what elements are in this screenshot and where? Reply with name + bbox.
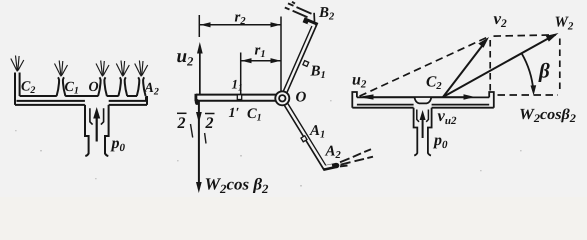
svg-text:W2cos β2: W2cos β2 bbox=[205, 175, 269, 196]
nozzle funnel 4 (right end) bbox=[137, 77, 146, 96]
lower arm to A2 bbox=[282, 98, 337, 168]
hub outer bbox=[275, 91, 289, 105]
right tube right lip bbox=[489, 92, 494, 108]
right pipe outer walls bbox=[414, 108, 418, 156]
vector v2 bbox=[443, 37, 489, 97]
nozzle funnel 3 bbox=[118, 77, 127, 96]
left tube end wall (right) bbox=[146, 96, 147, 105]
sprays left tube bbox=[11, 56, 148, 77]
upper arm to B2 bbox=[282, 20, 315, 99]
vector w2 bbox=[443, 33, 559, 97]
marker square 1-1 on bar bbox=[237, 95, 241, 100]
right tube left lip bbox=[352, 92, 357, 108]
nozzle funnel 1 bbox=[57, 77, 66, 96]
right tube outer bottom bbox=[352, 107, 494, 109]
p0 flow arrow (right pipe) bbox=[420, 110, 426, 138]
rotor bar (horizontal arm) bbox=[196, 94, 277, 102]
spray A2 (dashes right) bbox=[340, 149, 373, 166]
r1 dimension bbox=[241, 53, 281, 95]
svg-text:O: O bbox=[296, 90, 307, 106]
right pipe inner hooks bbox=[417, 110, 419, 122]
svg-text:2: 2 bbox=[205, 115, 214, 132]
right tube cavity bottom bbox=[357, 104, 489, 106]
svg-text:β: β bbox=[538, 59, 550, 83]
supply pipe outer walls bbox=[85, 105, 89, 156]
hub axle inner circle bbox=[279, 95, 285, 101]
left tube bottom wall inner line bbox=[17, 100, 147, 102]
u2 axis up arrow bbox=[197, 42, 203, 95]
right tube top wall bbox=[352, 92, 494, 156]
spray B2 (dashes up-left) bbox=[285, 2, 312, 17]
paper speckles bbox=[15, 100, 562, 187]
svg-text:W2cosβ2: W2cosβ2 bbox=[519, 106, 576, 125]
dashed drop below w2 bbox=[559, 39, 561, 93]
dashed parallelogram side u2-v2 bbox=[360, 38, 487, 97]
nozzle funnel 2 bbox=[98, 77, 107, 96]
angle arc beta with arrow bbox=[522, 53, 537, 95]
r2 dimension bbox=[199, 15, 281, 91]
marker square B1 bbox=[303, 61, 309, 67]
vector vu2 (right along tube) bbox=[443, 94, 475, 100]
svg-text:O: O bbox=[89, 80, 99, 95]
left tube end lip (left, upturned) bbox=[15, 73, 20, 105]
dashed baseline to w2 foot bbox=[498, 94, 559, 96]
bar end blob bbox=[195, 99, 199, 105]
left tube top wall bbox=[20, 95, 137, 97]
supply pipe inner tube hooks bbox=[90, 108, 93, 124]
dashed drop below v2 bbox=[489, 40, 491, 93]
inlet dip bbox=[415, 97, 432, 103]
vector u2 (left along tube) bbox=[358, 94, 443, 99]
p0 flow arrow (left pipe) bbox=[93, 107, 100, 142]
marker square A1 bbox=[301, 136, 307, 142]
axis down arrow w2cosb2 bbox=[191, 101, 207, 193]
dashed line v2-w2 bbox=[494, 35, 557, 36]
left tube bottom wall outer line bbox=[15, 104, 147, 106]
svg-text:1′: 1′ bbox=[229, 106, 240, 121]
svg-text:2: 2 bbox=[177, 115, 186, 132]
